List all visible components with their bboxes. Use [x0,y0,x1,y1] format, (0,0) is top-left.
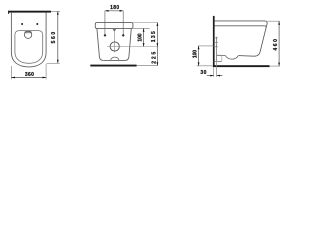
chain B top arrow [157,23,159,26]
chain B mid arrow [157,43,159,46]
fixing hole diamond left [104,34,107,37]
dim 30 right arrow [217,75,220,77]
dim 360 extension right [45,64,47,79]
dim 180 line [105,10,123,12]
floor line (thick) [213,65,270,67]
seat fixing dot right [36,23,38,25]
dim 460 top arrow [278,21,280,25]
band bottom line [215,26,267,28]
dim 360 right arrow [43,77,47,79]
top extension right (460) [268,20,280,22]
dim 30 left line [207,75,214,77]
top band (cistern area) [95,23,133,29]
body bottom edge [103,59,125,61]
outlet stub bottom [214,60,222,62]
svg-text:100: 100 [193,50,199,58]
dim 460 line [278,21,280,66]
outlet stub vertical [216,37,218,62]
dim 180 right arrow [120,10,124,12]
outlet circle horizontal centerline [107,46,122,48]
flush hole circle [24,31,31,38]
dim 100 line (chain A) [143,28,145,46]
dim 560 bottom extension [47,62,60,64]
dim 30 extension stub [216,62,218,77]
pipe tick 1 [214,37,218,39]
dim 560 line [57,11,59,63]
dim chain B line [156,23,158,66]
svg-text:135: 135 [151,31,157,42]
dim 560 bottom arrow [57,60,59,64]
dim 360 line [11,77,46,79]
outlet circle [110,42,119,51]
dim 100 side bottom arrow [198,62,200,65]
chain A top arrow [143,28,145,31]
chain B bottom arrow [157,62,159,65]
svg-text:560: 560 [51,32,57,44]
dim 30 right line [217,75,223,77]
centerline extension to dims [122,46,158,48]
dim 100 extension top [198,45,214,47]
extension line top (560) [51,11,60,13]
inlet triangle [113,29,116,31]
fixing hole diamond right [122,34,125,37]
pipe tick 3 [214,46,218,48]
band top extension right [133,22,158,24]
svg-text:100: 100 [138,33,144,41]
wall line (thick) [8,11,51,13]
extension line left hole [104,11,106,37]
WC outer outline (plan) [11,13,46,67]
body left side [97,28,103,60]
floor extension right [137,65,158,67]
dim 560 top arrow [57,11,59,15]
svg-text:225: 225 [151,51,157,63]
underside line to rear [217,54,226,56]
dim 100 extension bottom [197,65,213,67]
underside trap arc [225,55,238,59]
dim 30 left arrow [210,75,213,77]
extension line right hole [122,11,124,37]
outlet stub right side [221,55,223,61]
dim 180 left arrow [105,10,109,12]
svg-text:360: 360 [25,72,34,78]
top surface and front face outline [215,21,268,56]
dim 460 bottom arrow [278,63,280,67]
svg-text:180: 180 [110,5,119,11]
band bottom extension right [133,27,150,29]
dim 100 line (side) [198,46,200,66]
WC inner rim outline [15,31,43,64]
wall tick left end [8,13,9,14]
flush hole shading dome [24,30,32,33]
floor line center view (thick) [90,65,136,67]
dim 360 left arrow [11,77,15,79]
pipe tick 2 [214,41,218,43]
dim 30 extension wall [213,67,215,77]
svg-text:30: 30 [200,70,206,76]
dim 100 side top arrow [198,46,200,49]
dim 360 extension left [10,66,12,79]
floor extension right [270,65,280,67]
chain A bottom arrow [143,43,145,46]
wall line (thick vertical) [213,16,215,67]
body right side [125,28,131,60]
bottom center semicircle (trap) [111,57,119,60]
seat fixing dot left [21,23,23,25]
center vertical line [113,29,115,53]
svg-text:460: 460 [273,39,279,51]
